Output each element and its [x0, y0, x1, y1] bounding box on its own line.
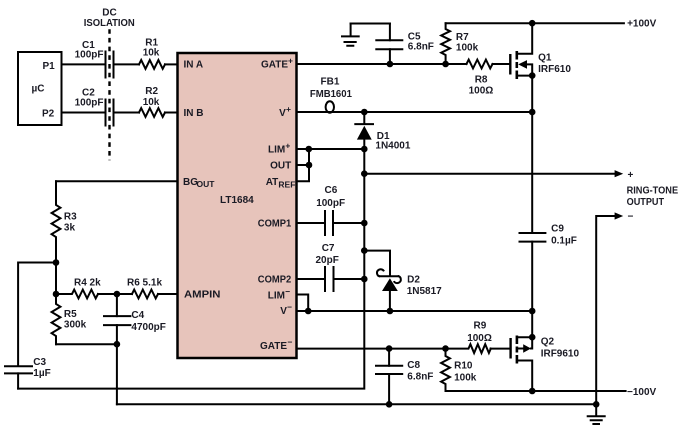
svg-text:REF: REF	[278, 179, 295, 189]
svg-text:10k: 10k	[143, 97, 160, 108]
svg-text:OUT: OUT	[270, 161, 291, 172]
svg-text:+: +	[288, 56, 293, 66]
svg-text:R8: R8	[475, 74, 488, 85]
resistor R7 100k	[441, 23, 478, 64]
svg-text:R9: R9	[474, 321, 487, 332]
wire V- line	[297, 310, 533, 312]
svg-text:−: −	[628, 212, 634, 223]
svg-text:100pF: 100pF	[316, 198, 345, 209]
svg-text:COMP1: COMP1	[258, 219, 292, 230]
svg-text:P2: P2	[42, 109, 55, 120]
svg-text:Q2: Q2	[541, 337, 555, 348]
wire C1 to R1	[115, 63, 140, 65]
junction - output / ground rail	[593, 401, 600, 408]
svg-text:100Ω: 100Ω	[469, 86, 494, 97]
svg-text:R2: R2	[145, 86, 158, 97]
svg-text:RING-TONE: RING-TONE	[627, 185, 679, 196]
svg-text:ISOLATION: ISOLATION	[84, 18, 135, 29]
svg-text:FB1: FB1	[321, 77, 340, 88]
svg-text:+100V: +100V	[627, 18, 657, 29]
svg-text:LIM: LIM	[268, 290, 285, 301]
svg-text:100pF: 100pF	[75, 50, 104, 61]
svg-text:0.1µF: 0.1µF	[551, 236, 577, 247]
svg-text:−: −	[285, 286, 290, 296]
junction C4 top / AMPIN line	[114, 291, 121, 298]
wire R9 to Q2 gate	[491, 348, 510, 350]
wire R8 to Q1 gate	[493, 63, 510, 65]
transistor Q2 IRF9610	[511, 334, 580, 391]
svg-text:LIM: LIM	[268, 145, 285, 156]
wire node line to D2	[364, 251, 390, 276]
resistor R8 100 ohm	[467, 60, 494, 97]
wire C9 column down to Q2 drain	[531, 311, 533, 337]
svg-text:GATE: GATE	[260, 341, 287, 352]
svg-text:COMP2: COMP2	[258, 275, 292, 286]
svg-text:100Ω: 100Ω	[467, 333, 492, 344]
svg-text:FMB1601: FMB1601	[310, 89, 352, 100]
wire ring-tone - output	[596, 212, 633, 405]
capacitor C7 20pF	[316, 243, 365, 291]
junction C4 bottom	[114, 341, 121, 348]
capacitor C1 100pF	[75, 40, 114, 78]
junction Q2 source / -100V rail	[529, 388, 536, 395]
wire R2 to IN B	[165, 112, 178, 114]
wire ring-tone + output	[364, 170, 623, 177]
svg-text:IRF9610: IRF9610	[541, 349, 580, 360]
wire main vertical node line	[18, 149, 364, 389]
svg-text:300k: 300k	[64, 320, 87, 331]
svg-text:R10: R10	[454, 360, 473, 371]
resistor R4 2k	[56, 278, 101, 299]
-100V rail	[446, 387, 657, 398]
svg-text:R5: R5	[64, 309, 77, 320]
svg-text:−100V: −100V	[627, 387, 657, 398]
svg-text:R6 5.1k: R6 5.1k	[127, 278, 162, 289]
wire BGOUT to R3	[56, 180, 178, 182]
svg-text:AMPIN: AMPIN	[184, 290, 221, 301]
capacitor C3 1uF	[5, 357, 51, 389]
junction C8 / ground rail	[386, 401, 393, 408]
wire OUT from IC	[297, 164, 310, 166]
junction C5 / GATE+ line	[387, 61, 394, 68]
svg-text:IRF610: IRF610	[538, 64, 571, 75]
resistor R9 100 ohm	[467, 321, 492, 354]
svg-text:D2: D2	[407, 275, 420, 286]
svg-text:20pF: 20pF	[316, 255, 339, 266]
ground (bottom right)	[588, 404, 605, 424]
op-amp U1 LT1684 body	[178, 53, 297, 358]
wire R4 to R6	[98, 293, 132, 295]
junction C6 / node line	[361, 220, 368, 227]
svg-text:+: +	[628, 170, 634, 181]
wire ground rail	[117, 403, 596, 405]
svg-text:100k: 100k	[454, 373, 477, 384]
capacitor C8 6.8nF	[376, 349, 433, 405]
svg-text:+: +	[285, 141, 290, 151]
wire C4 bottom down to ground rail	[116, 344, 118, 404]
diode D1 1N4001	[355, 112, 411, 152]
svg-text:Q1: Q1	[538, 53, 552, 64]
svg-text:6.8nF: 6.8nF	[408, 41, 434, 52]
svg-text:100k: 100k	[456, 43, 479, 54]
resistor R2 10k	[139, 86, 165, 117]
capacitor C5 6.8nF	[376, 24, 434, 65]
junction C7 / node line	[361, 276, 368, 283]
wire LIM- jog down to V-	[297, 295, 309, 312]
resistor R10 100k	[441, 349, 477, 391]
wire GATE+ to R8	[297, 63, 467, 65]
resistor R6 5.1k	[127, 278, 162, 299]
svg-text:10k: 10k	[143, 48, 160, 59]
svg-text:C4: C4	[131, 310, 144, 321]
resistor R1 10k	[139, 37, 165, 68]
ground (top, for C5)	[342, 24, 359, 46]
svg-text:R4 2k: R4 2k	[74, 278, 101, 289]
wire COMP2 to C7	[297, 278, 326, 280]
svg-text:IN A: IN A	[184, 60, 204, 71]
wire ATREF from IC with jog up to LIM+	[297, 149, 310, 181]
DC isolation dashed boundary	[84, 7, 135, 160]
junction R4 R5 node	[53, 291, 60, 298]
svg-text:+: +	[286, 104, 291, 114]
wire R1 to IN A	[165, 63, 178, 65]
svg-text:C9: C9	[551, 224, 564, 235]
junction LIM+ jog	[306, 146, 313, 153]
svg-text:1N4001: 1N4001	[375, 141, 410, 152]
wire R3 node down to R4/R5 node	[55, 263, 57, 295]
junction Q1 source / V+ line	[529, 109, 536, 116]
ferrite bead FB1 FMB1601	[310, 77, 352, 113]
svg-text:6.8nF: 6.8nF	[407, 371, 433, 382]
wire Q1 source down to C9	[531, 76, 533, 233]
wire GATE- line	[297, 348, 468, 350]
junction Q1 drain / +100V rail	[529, 20, 536, 27]
wire P1 to C1	[62, 63, 105, 65]
wire top ground to C5	[351, 23, 390, 25]
junction R3 / C3 branch	[53, 259, 60, 266]
svg-text:IN B: IN B	[184, 108, 204, 119]
svg-text:3k: 3k	[64, 223, 76, 234]
junction D2 / V-	[387, 308, 394, 315]
svg-text:P1: P1	[43, 61, 56, 72]
capacitor C2 100pF	[75, 88, 114, 126]
svg-text:R3: R3	[64, 212, 77, 223]
svg-text:−: −	[288, 337, 293, 347]
junction D1 / V+ line	[361, 109, 368, 116]
wire R5 bottom to C4 bottom	[56, 343, 117, 345]
svg-text:C3: C3	[33, 357, 46, 368]
svg-text:DC: DC	[102, 7, 116, 18]
wire R6 to AMPIN	[158, 293, 178, 295]
resistor R3 3k	[52, 181, 78, 262]
svg-text:LT1684: LT1684	[220, 195, 254, 206]
svg-text:1N5817: 1N5817	[407, 286, 442, 297]
svg-text:R7: R7	[456, 32, 469, 43]
svg-text:4700pF: 4700pF	[131, 322, 165, 333]
node + output label	[627, 170, 679, 208]
svg-text:GATE: GATE	[261, 60, 288, 71]
capacitor C9 0.1uF	[520, 224, 577, 312]
junction ring+ / node line	[361, 170, 368, 177]
junction V- / C9 column	[529, 308, 536, 315]
svg-text:µC: µC	[32, 84, 45, 95]
svg-text:C6: C6	[325, 185, 338, 196]
wire C2 to R2	[115, 112, 140, 114]
transistor Q1 IRF610	[510, 23, 571, 79]
+100V rail	[446, 18, 657, 29]
svg-text:C8: C8	[407, 360, 420, 371]
junction D2 branch / node line	[361, 247, 368, 254]
junction R7 / GATE+ line	[442, 61, 449, 68]
microcontroller block uC	[18, 52, 62, 125]
junction LIM- / V-	[305, 308, 312, 315]
wire V+ line	[297, 111, 533, 113]
diode D2 1N5817 schottky	[377, 269, 442, 311]
resistor R5 300k	[52, 294, 87, 344]
junction C8 / GATE-	[386, 345, 393, 352]
wire P2 to C2	[62, 112, 105, 114]
junction R10 R9 / GATE-	[442, 345, 449, 352]
svg-text:AT: AT	[266, 177, 279, 188]
svg-text:100pF: 100pF	[75, 97, 104, 108]
wire COMP1 to C6	[297, 222, 326, 224]
junction OUT jog	[306, 162, 313, 169]
wire LIM+ from IC	[297, 148, 365, 150]
capacitor C6 100pF	[316, 185, 364, 235]
capacitor C4 4700pF	[104, 294, 166, 344]
svg-text:−: −	[287, 302, 292, 312]
svg-text:OUTPUT: OUTPUT	[627, 197, 665, 208]
svg-text:OUT: OUT	[197, 179, 216, 189]
svg-text:C7: C7	[322, 243, 335, 254]
svg-text:1µF: 1µF	[33, 368, 50, 379]
junction LIM+ / D1	[361, 146, 368, 153]
wire R3 node to C3 top	[18, 263, 56, 367]
